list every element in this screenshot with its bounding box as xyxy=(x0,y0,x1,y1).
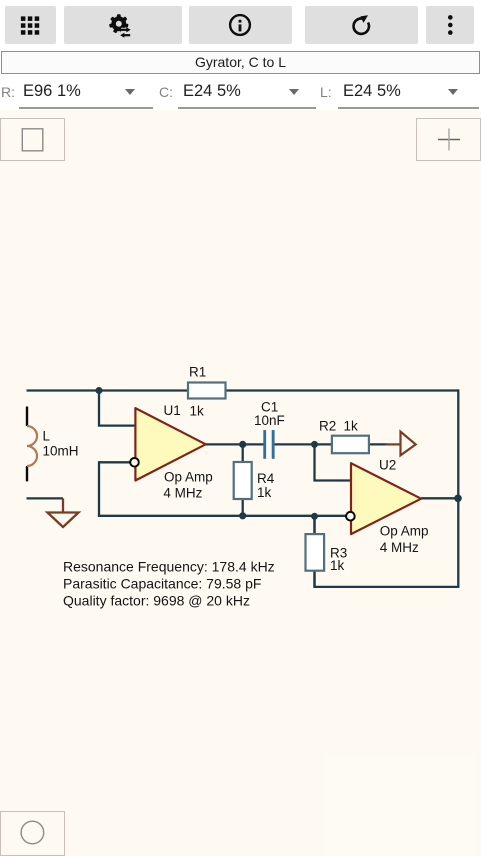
svg-text:Quality factor: 9698 @ 20 kHz: Quality factor: 9698 @ 20 kHz xyxy=(63,593,250,609)
svg-text:1k: 1k xyxy=(330,558,345,573)
svg-text:Parasitic Capacitance: 79.58 p: Parasitic Capacitance: 79.58 pF xyxy=(63,576,261,592)
svg-text:4 MHz: 4 MHz xyxy=(163,485,202,500)
svg-text:1k: 1k xyxy=(344,419,359,434)
svg-text:L: L xyxy=(43,429,51,444)
svg-text:10nF: 10nF xyxy=(254,413,285,428)
svg-text:1k: 1k xyxy=(190,404,205,419)
svg-text:Op Amp: Op Amp xyxy=(380,524,429,539)
svg-text:Resonance Frequency: 178.4 kHz: Resonance Frequency: 178.4 kHz xyxy=(63,559,275,575)
svg-text:R4: R4 xyxy=(257,471,275,486)
svg-text:R1: R1 xyxy=(189,365,206,380)
svg-text:4 MHz: 4 MHz xyxy=(380,540,419,555)
svg-text:1k: 1k xyxy=(257,485,272,500)
svg-text:Op Amp: Op Amp xyxy=(164,469,213,484)
svg-text:U1: U1 xyxy=(164,403,181,418)
svg-text:U2: U2 xyxy=(379,457,396,472)
svg-text:R2: R2 xyxy=(319,419,336,434)
svg-text:10mH: 10mH xyxy=(43,444,79,459)
